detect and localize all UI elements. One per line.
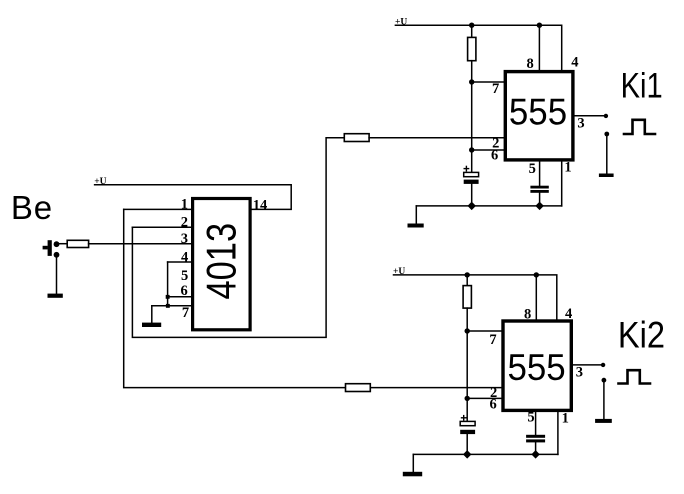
pushbutton S1 actuator xyxy=(43,240,52,256)
wire R1 to C1 xyxy=(471,61,473,173)
svg-text:Ki1: Ki1 xyxy=(621,66,663,105)
pin 7 wire upper xyxy=(472,81,504,83)
pin 7 wire xyxy=(152,305,191,307)
svg-text:4: 4 xyxy=(181,250,188,266)
pushbutton S1 contact lower xyxy=(54,252,60,258)
wire pin7 to ground xyxy=(151,306,153,323)
pin 8 wire lower xyxy=(535,275,537,319)
svg-text:2: 2 xyxy=(490,385,497,401)
pushbutton S1 contact upper xyxy=(54,241,60,247)
capacitor C1 plus sign xyxy=(464,166,468,170)
pin 3 label xyxy=(181,231,188,247)
resistor R1 xyxy=(468,37,476,60)
svg-text:8: 8 xyxy=(527,56,534,72)
pin 3 wire lower xyxy=(573,364,602,366)
junction (C1 bus) xyxy=(467,202,475,210)
terminal dot Ki1 a xyxy=(604,114,608,118)
svg-text:7: 7 xyxy=(489,332,496,348)
terminal dot Ki2 b xyxy=(602,378,607,383)
pin 1 wire xyxy=(124,208,191,210)
capacitor C3 plus sign xyxy=(462,416,466,420)
svg-text:555: 555 xyxy=(509,90,567,132)
pin 5 label lower xyxy=(527,409,534,425)
pin 2 wire lower xyxy=(370,387,501,389)
junction (C3 bus) xyxy=(463,450,471,458)
svg-text:5: 5 xyxy=(181,268,188,284)
svg-text:2: 2 xyxy=(181,215,188,231)
wire Ki2 b to ground xyxy=(603,382,605,419)
junction (R2 top) xyxy=(465,272,470,277)
junction (C4 bus) xyxy=(531,450,539,458)
pin 1 wire lower xyxy=(557,412,559,454)
junction (pin 7 lower) xyxy=(465,328,470,333)
pin 1 label lower xyxy=(562,410,569,426)
pin 5 wire upper xyxy=(539,162,541,186)
pin 6 label lower xyxy=(489,397,496,413)
capacitor C4 (pin5 lower) xyxy=(526,435,545,443)
wire pin4 to pin7 (vertical) xyxy=(167,262,169,306)
pulse symbol Ki2 xyxy=(619,370,651,383)
pin 8 label lower xyxy=(524,307,531,323)
svg-text:1: 1 xyxy=(564,160,571,176)
pin 3 label upper xyxy=(577,116,584,132)
capacitor C3 bottom plate xyxy=(460,430,475,434)
svg-text:Ki2: Ki2 xyxy=(618,314,665,356)
resistor R-trig lower xyxy=(346,384,371,392)
pulse symbol Ki1 xyxy=(624,120,655,134)
pin 7 label xyxy=(182,305,189,321)
capacitor C1 top plate xyxy=(464,172,479,176)
junction (pin 8 lower) xyxy=(534,272,539,277)
wire C3 to bus xyxy=(466,434,468,454)
svg-text:3: 3 xyxy=(181,231,188,247)
svg-text:7: 7 xyxy=(182,305,189,321)
wire R2 to C3 xyxy=(466,308,468,421)
terminal dot Ki1 b xyxy=(604,132,609,137)
label +U (4013 supply) xyxy=(94,177,106,187)
svg-text:14: 14 xyxy=(253,198,267,214)
label +U (lower 555) xyxy=(393,267,405,277)
pin 4 label xyxy=(181,250,188,266)
ground (Ki2) xyxy=(595,419,612,423)
pin 8 wire upper xyxy=(538,25,540,70)
pin 6 wire xyxy=(168,296,191,298)
wire +U rail upper xyxy=(395,25,561,70)
pin 14 label xyxy=(253,198,267,214)
pin 7 label upper xyxy=(492,81,499,97)
pin 2 label xyxy=(181,215,188,231)
junction (R1 top) xyxy=(469,23,474,28)
pin 2 wire upper xyxy=(369,137,504,139)
wire button to resistor xyxy=(59,243,68,245)
svg-text:Be: Be xyxy=(11,189,53,226)
IC U1 4013 xyxy=(193,199,251,330)
label Ki1 xyxy=(621,66,663,105)
pin 6 wire upper xyxy=(472,149,504,151)
pin 1 label xyxy=(181,197,188,213)
svg-text:3: 3 xyxy=(576,365,583,381)
capacitor C3 top plate xyxy=(460,421,475,425)
wire C2 to bus xyxy=(539,193,541,206)
pin 2 label lower xyxy=(490,385,497,401)
IC U2 555 upper xyxy=(505,72,573,160)
svg-text:7: 7 xyxy=(492,81,499,97)
resistor R-in xyxy=(67,240,88,247)
junction (pin 6 upper) xyxy=(469,147,474,152)
pin 5 label upper xyxy=(529,161,536,177)
ground (button) xyxy=(48,294,63,298)
555 value label lower xyxy=(508,346,566,388)
svg-text:5: 5 xyxy=(527,409,534,425)
555 value label upper xyxy=(509,90,567,132)
svg-text:6: 6 xyxy=(181,283,188,299)
junction (pin6) xyxy=(166,295,170,299)
ground (4013) xyxy=(142,323,161,327)
svg-text:1: 1 xyxy=(562,410,569,426)
ground (upper 555) xyxy=(408,224,424,228)
IC U3 555 lower xyxy=(503,321,571,410)
junction (pin7) xyxy=(166,304,170,308)
wire to R2 xyxy=(466,275,468,286)
label Ki2 xyxy=(618,314,665,356)
capacitor C1 bottom plate xyxy=(464,180,479,184)
pin 2 label upper xyxy=(492,136,499,152)
pin 4 wire xyxy=(168,261,191,263)
wire pin1 to lower 555 trigger xyxy=(124,209,346,387)
pin 2 wire xyxy=(132,226,191,228)
svg-text:555: 555 xyxy=(508,346,566,388)
pin 4 label upper xyxy=(571,54,578,70)
wire C4 to bus xyxy=(535,442,537,454)
pin 6 label xyxy=(181,283,188,299)
pin 4 label lower xyxy=(565,306,572,322)
wire button lower contact to ground xyxy=(56,255,58,295)
pin 7 wire lower xyxy=(467,330,501,332)
pin 1 wire upper xyxy=(561,162,563,206)
ground bus upper xyxy=(416,205,561,207)
pin 3 label lower xyxy=(576,365,583,381)
ground (lower 555) xyxy=(403,472,422,477)
svg-text:4: 4 xyxy=(571,54,578,70)
svg-text:5: 5 xyxy=(529,161,536,177)
pin 6 wire lower xyxy=(467,397,501,399)
wire +U rail 4013 xyxy=(95,185,292,210)
4013 value label xyxy=(198,223,245,300)
ground bus lower xyxy=(413,453,558,455)
pin 7 label lower xyxy=(489,332,496,348)
junction (pin 7 upper) xyxy=(469,79,474,84)
wire C1 to bus xyxy=(471,184,473,206)
wire bus to ground lower xyxy=(412,454,414,472)
junction (pin 8 upper) xyxy=(537,23,542,28)
wire bus to ground upper xyxy=(415,206,417,224)
label +U (upper 555) xyxy=(395,17,407,27)
junction (pin 6 lower) xyxy=(465,396,470,401)
pin 3 wire upper xyxy=(575,115,605,117)
svg-text:3: 3 xyxy=(577,116,584,132)
pin 6 label upper xyxy=(491,147,498,163)
label Be (input) xyxy=(11,189,53,226)
pin 8 label upper xyxy=(527,56,534,72)
wire +U rail lower xyxy=(394,275,557,319)
pin 5 label xyxy=(181,268,188,284)
ground (Ki1) xyxy=(599,174,614,178)
resistor R-trig upper xyxy=(344,134,369,142)
capacitor C2 (pin5 upper) xyxy=(530,186,548,193)
svg-text:1: 1 xyxy=(181,197,188,213)
resistor R2 xyxy=(463,286,471,309)
terminal dot Ki2 a xyxy=(601,363,605,367)
svg-text:4013: 4013 xyxy=(198,223,245,300)
wire to R1 xyxy=(471,25,473,37)
pin 1 label upper xyxy=(564,160,571,176)
svg-text:2: 2 xyxy=(492,136,499,152)
junction (C2 bus) xyxy=(535,202,543,210)
pin 5 wire lower xyxy=(535,412,537,435)
wire Ki1 b to ground xyxy=(606,136,608,174)
wire resistor to 4013 pin 3 xyxy=(89,243,192,245)
wire pin2 to upper 555 trigger xyxy=(132,138,344,338)
